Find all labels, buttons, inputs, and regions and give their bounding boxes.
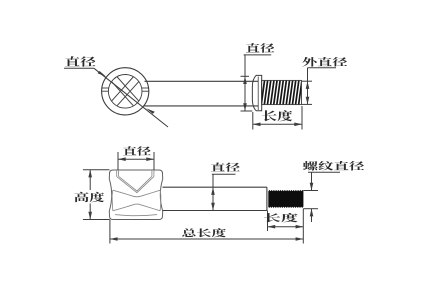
ring seam lines bbox=[102, 88, 149, 91]
eye diameter line bbox=[94, 68, 168, 127]
bottom shaft bbox=[163, 187, 267, 210]
bottom thread block bbox=[268, 190, 304, 208]
label: waizhijing bbox=[302, 57, 347, 67]
extension lines changdu-top bbox=[253, 106, 302, 130]
label: zongchangdu bbox=[182, 228, 226, 237]
dim changdu-bottom bbox=[268, 209, 304, 244]
label: zhijing-shaft bbox=[211, 163, 240, 172]
label: gaodu bbox=[74, 192, 104, 202]
eye ring outer circle bbox=[102, 68, 149, 115]
leader zhijing-head bbox=[241, 55, 272, 112]
label: zhijing-body bbox=[123, 146, 151, 155]
dim zongchangdu bbox=[110, 220, 303, 244]
leader zhijing-shaft bbox=[212, 174, 236, 210]
shaft top line bbox=[145, 80, 259, 82]
eye ring inner circle bbox=[108, 75, 142, 109]
eye inner cross pattern bbox=[112, 77, 139, 106]
body inner pattern bbox=[112, 170, 161, 216]
leader luowenzhijing bbox=[303, 172, 340, 222]
arrows waizhijing bbox=[306, 81, 310, 89]
underline zhijing-eye bbox=[64, 67, 94, 69]
label: changdu-bottom bbox=[264, 213, 298, 222]
label: zhijing-eye bbox=[65, 56, 96, 67]
arrows zhijing-head bbox=[243, 76, 247, 84]
dim gaodu bbox=[83, 170, 110, 220]
leader waizhijing bbox=[302, 68, 336, 105]
label: changdu-top bbox=[262, 110, 292, 121]
shaft bottom line bbox=[144, 105, 259, 107]
dim zhijing-body bbox=[118, 152, 154, 170]
arrows changdu-top bbox=[253, 123, 261, 127]
screw head bbox=[252, 75, 261, 110]
label: zhijing-head bbox=[246, 43, 274, 53]
label: luowenzhijing bbox=[303, 161, 364, 171]
eye diameter arrowheads bbox=[98, 71, 107, 77]
body outline bbox=[109, 170, 162, 220]
